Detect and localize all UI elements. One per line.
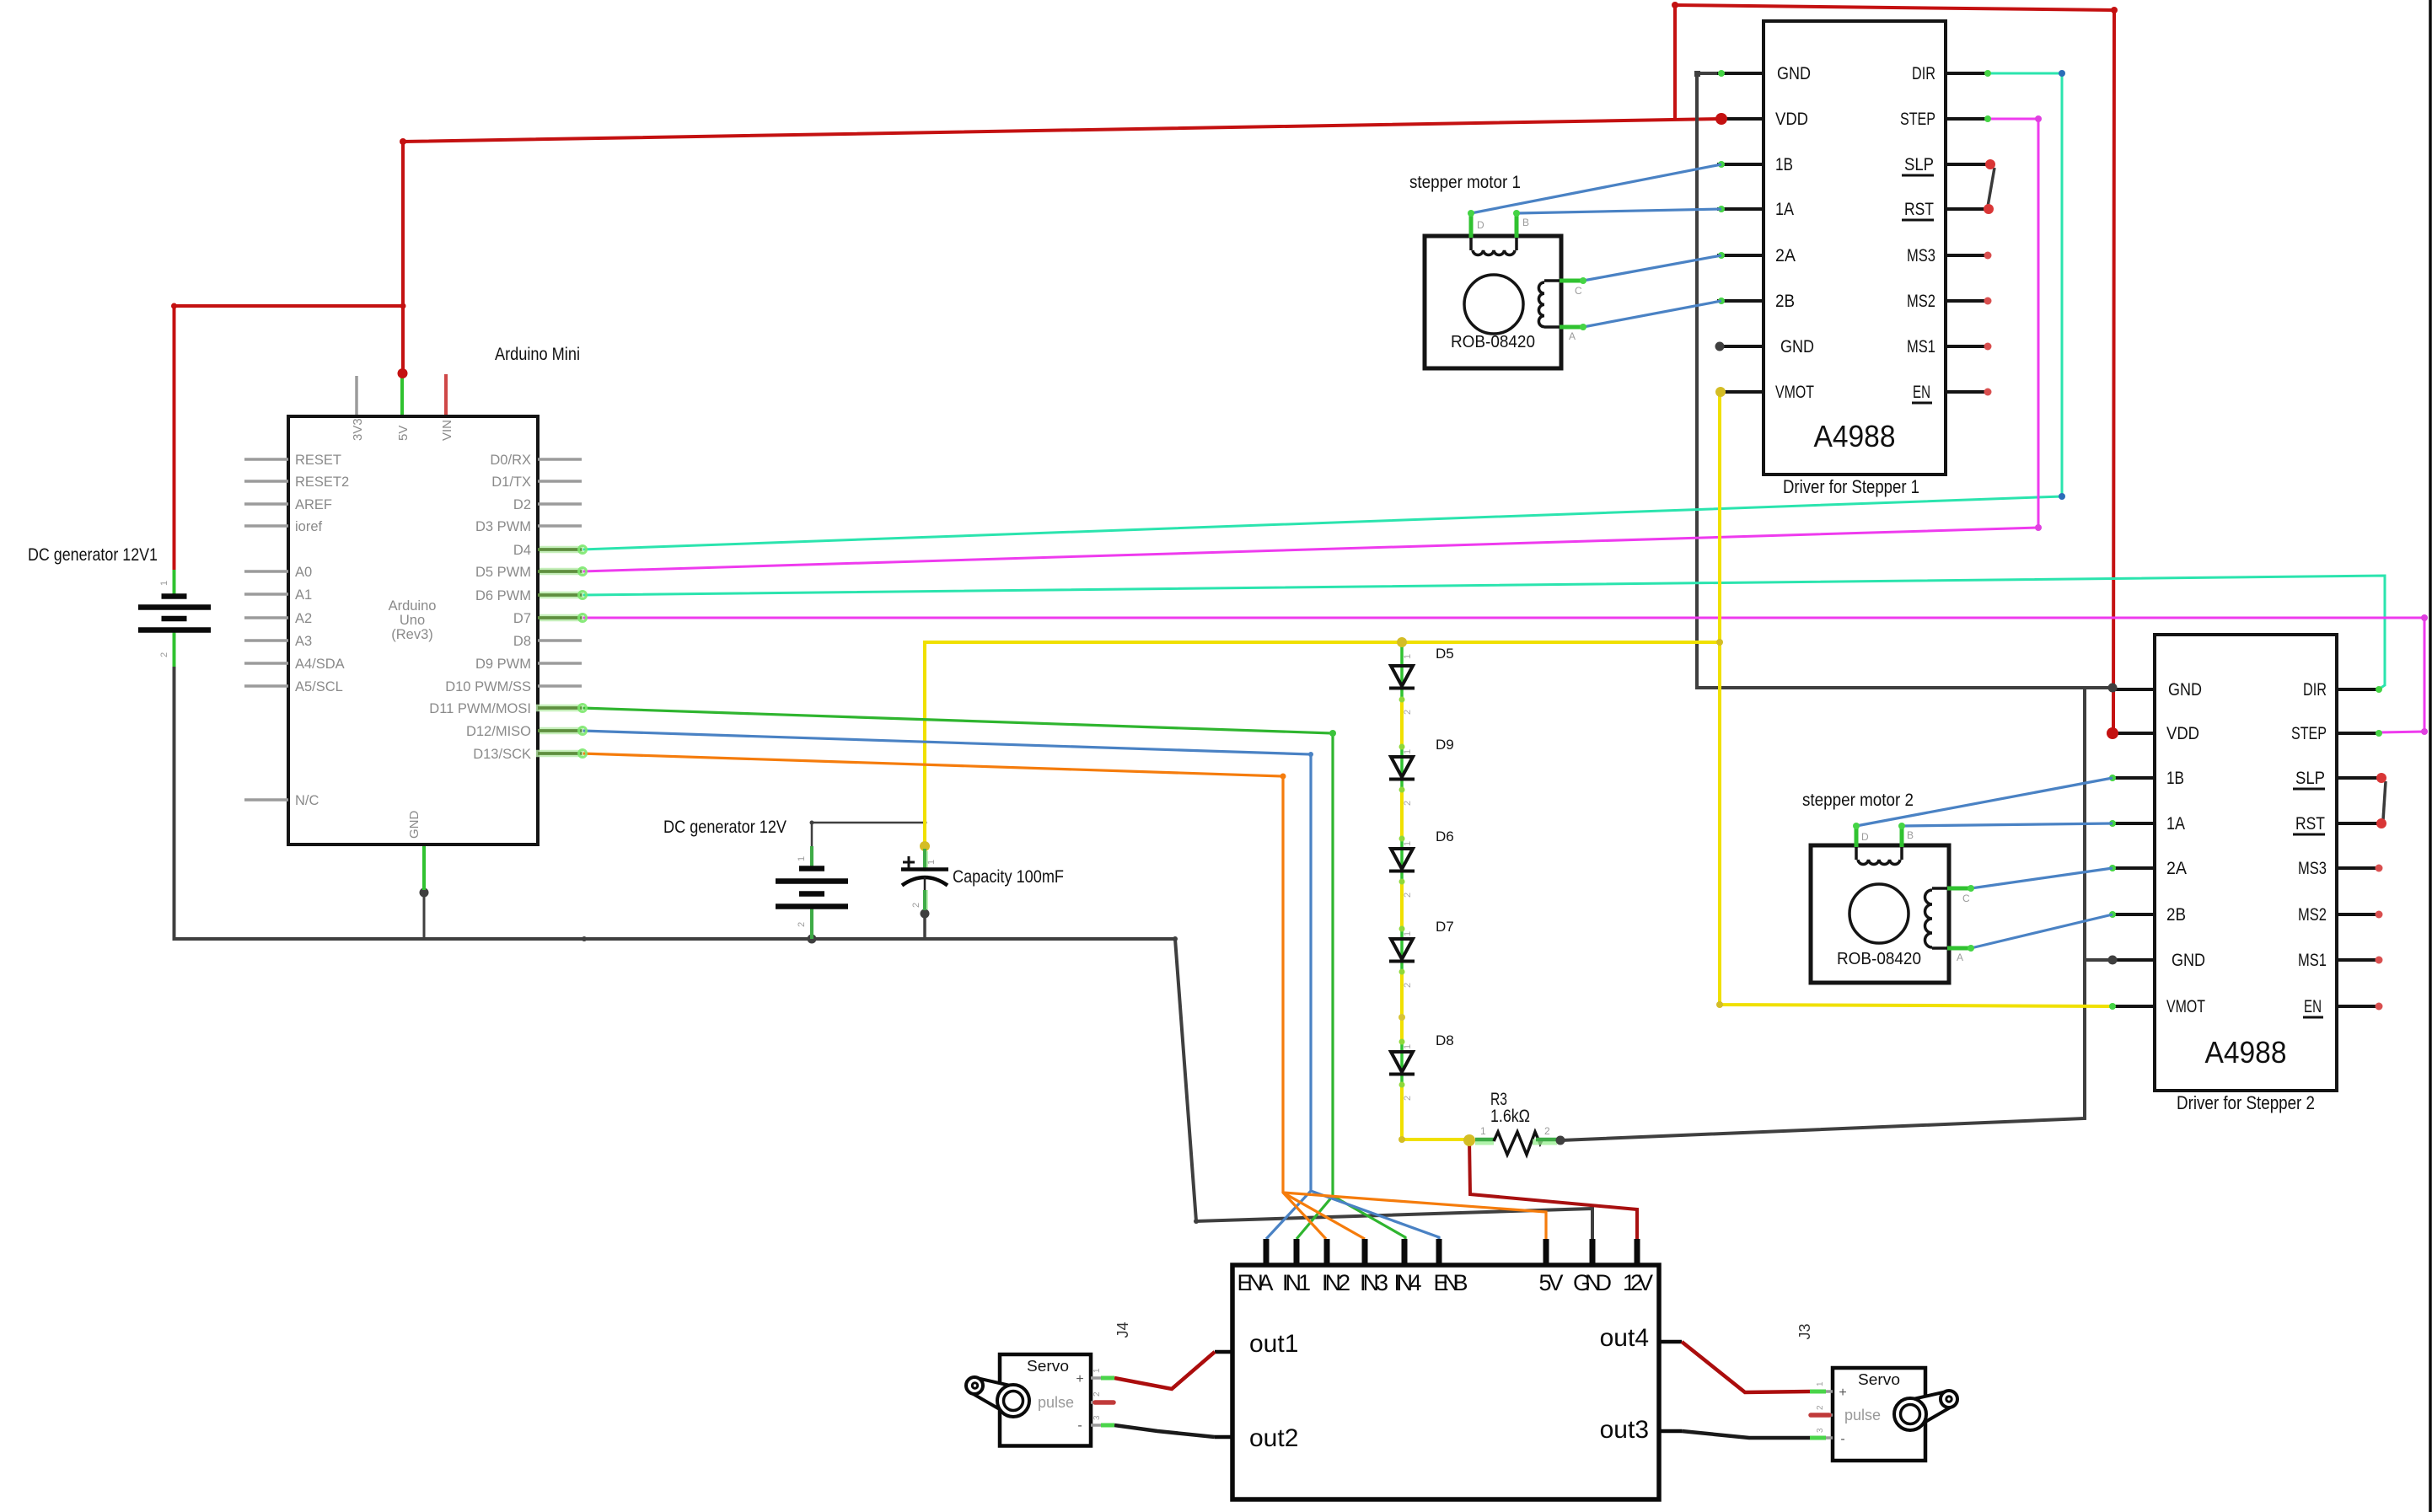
wire red out4 to servo J3 plus xyxy=(1682,1342,1810,1392)
svg-text:+: + xyxy=(1839,1386,1846,1400)
node 5V red junction dot xyxy=(398,368,408,378)
svg-text:A1: A1 xyxy=(295,587,312,603)
svg-text:D8: D8 xyxy=(1436,1032,1454,1048)
svg-text:out3: out3 xyxy=(1600,1416,1649,1444)
pin leads driver1 xyxy=(1717,73,1988,392)
node bus junction dots xyxy=(582,936,587,941)
svg-text:GND: GND xyxy=(1573,1270,1612,1295)
svg-text:DIR: DIR xyxy=(2303,680,2327,700)
svg-text:A: A xyxy=(1569,330,1576,342)
svg-text:D6 PWM: D6 PWM xyxy=(475,588,531,603)
diode D8 xyxy=(1389,1052,1415,1075)
motor driver board body xyxy=(1232,1265,1659,1499)
svg-text:VMOT: VMOT xyxy=(1775,383,1814,402)
svg-text:STEP: STEP xyxy=(1900,110,1935,129)
svg-text:A: A xyxy=(1957,952,1963,963)
svg-text:3: 3 xyxy=(1093,1415,1102,1420)
diode D7 xyxy=(1389,939,1415,962)
wire blue motor1 D to 1B xyxy=(1471,164,1721,213)
svg-text:Arduino: Arduino xyxy=(389,598,437,614)
svg-text:D13/SCK: D13/SCK xyxy=(473,747,531,762)
capacitor center stub xyxy=(924,877,926,892)
svg-text:Driver for Stepper 2: Driver for Stepper 2 xyxy=(2177,1092,2315,1113)
svg-text:1: 1 xyxy=(1816,1381,1825,1386)
motor M2 body xyxy=(1811,845,1949,983)
wire orange D13 to IN2, IN3 and 5V xyxy=(582,753,1546,1239)
svg-text:Driver for Stepper 1: Driver for Stepper 1 xyxy=(1783,476,1919,497)
svg-text:SLP: SLP xyxy=(1904,155,1934,174)
svg-text:A0: A0 xyxy=(295,565,312,580)
svg-text:GND: GND xyxy=(1777,64,1811,83)
wire pulse stub J3 xyxy=(1811,1413,1829,1418)
op-amp U3 A4988 driver 2 body xyxy=(2155,635,2337,1091)
wire battery2 pin1 lead green xyxy=(810,846,813,868)
svg-text:2A: 2A xyxy=(1775,246,1796,265)
wire red junction to 5V dot vertical xyxy=(403,119,1721,374)
RST underline d2 xyxy=(2293,834,2325,836)
svg-text:out2: out2 xyxy=(1249,1424,1298,1452)
svg-text:3V3: 3V3 xyxy=(351,418,365,441)
svg-text:Uno: Uno xyxy=(400,613,425,628)
svg-text:GND: GND xyxy=(407,811,421,839)
svg-text:ROB-08420: ROB-08420 xyxy=(1451,333,1535,351)
svg-text:1B: 1B xyxy=(1775,155,1793,174)
pin leads right green (connected, glow) xyxy=(536,550,583,753)
pin numbers diodes xyxy=(1403,654,1413,1101)
node yellow dot at yellow corner bottom xyxy=(1716,1001,1723,1008)
svg-text:2: 2 xyxy=(1403,893,1413,898)
wire cap plus lead green xyxy=(925,851,927,871)
wire grey driver2 vertical down to R3 xyxy=(1561,688,2085,1140)
svg-text:D9: D9 xyxy=(1436,737,1454,753)
pin labels left xyxy=(295,453,349,808)
wire motor1 lead B green xyxy=(1515,213,1519,238)
svg-text:-: - xyxy=(1840,1432,1844,1446)
svg-text:D3 PWM: D3 PWM xyxy=(475,519,531,534)
svg-text:out1: out1 xyxy=(1249,1330,1298,1358)
svg-text:RST: RST xyxy=(2295,814,2325,834)
svg-text:RESET: RESET xyxy=(295,453,341,468)
svg-text:+: + xyxy=(1076,1372,1083,1386)
motor2 right coil xyxy=(1925,888,1948,948)
svg-text:A4988: A4988 xyxy=(1814,419,1896,453)
node R3 yellow junction dot xyxy=(1463,1134,1475,1146)
svg-text:stepper motor 1: stepper motor 1 xyxy=(1409,173,1521,192)
svg-text:D12/MISO: D12/MISO xyxy=(466,724,531,739)
wire blue motor2 A to 2B xyxy=(1971,914,2113,948)
svg-text:MS3: MS3 xyxy=(1907,246,1935,265)
wire blue motor2 B to 1A xyxy=(1902,823,2113,826)
node red bend dots xyxy=(171,303,177,309)
svg-text:D0/RX: D0/RX xyxy=(490,453,531,468)
svg-text:ROB-08420: ROB-08420 xyxy=(1837,950,1921,968)
svg-text:D1/TX: D1/TX xyxy=(491,475,531,490)
wire blue motor1 C to 2A xyxy=(1583,255,1721,281)
wire yellow VMOT1 down to driver2 VMOT xyxy=(1720,392,2113,1006)
svg-text:2: 2 xyxy=(1093,1391,1102,1397)
pin leads left (unconnected grey) xyxy=(244,459,288,800)
node MS3 MS2 MS1 EN red marks d2 xyxy=(2376,865,2383,1011)
svg-text:1A: 1A xyxy=(1775,200,1794,219)
capacitor C1 top plate xyxy=(901,867,948,871)
svg-text:VIN: VIN xyxy=(440,420,454,441)
svg-text:Servo: Servo xyxy=(1858,1371,1900,1388)
svg-text:D10 PWM/SS: D10 PWM/SS xyxy=(445,679,531,694)
svg-text:MS2: MS2 xyxy=(2298,905,2327,925)
wire yellow D8 bottom to R3 node xyxy=(1402,1138,1469,1141)
motor1 rotor circle xyxy=(1464,275,1523,334)
wire blue motor1 B to 1A xyxy=(1517,209,1721,213)
svg-text:2B: 2B xyxy=(2166,905,2186,925)
wire pulse stub J4 xyxy=(1095,1400,1114,1405)
svg-text:A5/SCL: A5/SCL xyxy=(295,679,343,694)
pin labels right xyxy=(429,453,531,762)
wire cap minus lead green xyxy=(926,890,928,909)
wire red battery1 to junction xyxy=(174,5,2115,733)
node RST red dot xyxy=(1984,204,1994,214)
pin labels top row xyxy=(1237,1270,1654,1295)
svg-text:2: 2 xyxy=(1403,983,1413,988)
pin green highlights J4 xyxy=(1101,1376,1114,1381)
svg-text:SLP: SLP xyxy=(2295,769,2325,788)
SLP underline xyxy=(1902,174,1934,177)
node yellow junction dot top of chain xyxy=(1397,637,1407,647)
svg-text:1.6kΩ: 1.6kΩ xyxy=(1490,1107,1530,1126)
wire red R3 node down to 12V pin xyxy=(1469,1139,1637,1239)
svg-text:D: D xyxy=(1477,219,1484,231)
svg-text:D6: D6 xyxy=(1436,828,1454,844)
node DIR STEP green dots xyxy=(1984,70,1991,77)
servo J4 body xyxy=(1000,1354,1091,1446)
wire motor2 lead C green xyxy=(1947,887,1971,891)
motor M1 body xyxy=(1425,236,1561,368)
svg-text:ENA: ENA xyxy=(1237,1270,1274,1295)
capacitor plus sign xyxy=(903,856,915,868)
pin leads right grey (unconnected) xyxy=(538,459,582,686)
RST underline xyxy=(1902,219,1934,222)
svg-text:D2: D2 xyxy=(513,497,531,512)
svg-text:1A: 1A xyxy=(2166,814,2185,834)
wire magenta D5 to driver1 STEP xyxy=(582,119,2424,732)
node VDD2 red junction dot xyxy=(2107,727,2118,739)
motor2 top coil xyxy=(1856,847,1902,865)
pin green highlights J3 xyxy=(1810,1390,1826,1394)
svg-text:IN3: IN3 xyxy=(1360,1270,1388,1295)
svg-text:DIR: DIR xyxy=(1912,64,1935,83)
svg-text:out4: out4 xyxy=(1600,1324,1649,1352)
wire grey arduino GND stub to bus xyxy=(423,893,426,939)
svg-text:1: 1 xyxy=(797,856,807,861)
node GND1 green dot xyxy=(1718,70,1725,77)
wire grey capacitor minus stub to bus xyxy=(923,914,926,939)
wire grey battery2 plus link to yellow node xyxy=(812,823,925,847)
svg-text:J4: J4 xyxy=(1114,1322,1131,1338)
svg-text:2: 2 xyxy=(1403,801,1413,806)
wire grey driver2 GND2 stub xyxy=(2085,958,2113,962)
node motor2 pin dots xyxy=(1853,823,1974,952)
svg-text:STEP: STEP xyxy=(2291,724,2327,743)
EN underline d2 xyxy=(2303,1016,2323,1019)
svg-text:1: 1 xyxy=(1480,1125,1486,1137)
wire GND bottom lead green xyxy=(422,844,426,890)
node SLP red dot xyxy=(1985,159,1995,169)
wire black servo J4 minus to out2 xyxy=(1114,1425,1215,1437)
svg-text:B: B xyxy=(1907,829,1914,841)
servo J4 horn xyxy=(966,1377,1029,1417)
frame right edge bar xyxy=(2429,0,2432,1512)
node yellow-green chain dots xyxy=(1399,697,1405,1088)
battery BT1 plates xyxy=(138,597,211,630)
svg-text:IN2: IN2 xyxy=(1322,1270,1350,1295)
node motor1 pin dots xyxy=(1468,210,1586,330)
svg-text:DC generator 12V: DC generator 12V xyxy=(663,818,787,837)
wire motor1 lead D green xyxy=(1469,213,1474,238)
svg-text:Servo: Servo xyxy=(1027,1358,1069,1375)
wire yellow segments between diodes xyxy=(1400,700,1404,1139)
svg-text:1: 1 xyxy=(1403,749,1413,754)
svg-text:C: C xyxy=(1962,893,1970,904)
wire yellow capacitor up to D5 junction and to VMOT1 column xyxy=(925,392,2113,1139)
svg-text:A3: A3 xyxy=(295,634,312,649)
wire cyan D4 to driver1 DIR xyxy=(582,73,2385,689)
svg-text:IN4: IN4 xyxy=(1394,1270,1422,1295)
svg-text:2B: 2B xyxy=(1775,292,1795,311)
wire cyan D6 to driver2 DIR xyxy=(582,576,2385,689)
svg-text:2A: 2A xyxy=(2166,859,2187,878)
pin leads J4 xyxy=(1091,1378,1107,1425)
svg-text:D7: D7 xyxy=(513,611,531,626)
wire motor2 lead D green xyxy=(1855,826,1859,847)
node VMOT1 yellow dot xyxy=(1715,387,1726,397)
motor1 top coil xyxy=(1471,238,1517,255)
node VDD1 red junction dot xyxy=(1715,113,1727,125)
svg-text:GND: GND xyxy=(1780,337,1814,357)
wire VIN top lead red stub xyxy=(444,374,448,416)
svg-text:pulse: pulse xyxy=(1038,1394,1074,1411)
wire diode chain green backbone xyxy=(1400,642,1404,1139)
motor2 rotor circle xyxy=(1850,884,1909,943)
wire blue motor1 A to 2B xyxy=(1583,301,1721,327)
svg-text:D7: D7 xyxy=(1436,919,1454,935)
svg-text:Arduino Mini: Arduino Mini xyxy=(495,345,580,364)
svg-text:B: B xyxy=(1522,217,1529,228)
svg-text:pulse: pulse xyxy=(1844,1407,1881,1424)
svg-text:J3: J3 xyxy=(1796,1323,1813,1339)
svg-text:ioref: ioref xyxy=(295,519,323,534)
servo J3 body xyxy=(1833,1368,1925,1461)
svg-text:1: 1 xyxy=(159,581,169,586)
svg-text:-: - xyxy=(1077,1418,1082,1433)
wire 5V top lead green xyxy=(400,374,404,416)
pin stubs top xyxy=(1266,1239,1637,1265)
svg-text:D5 PWM: D5 PWM xyxy=(475,565,531,580)
motor1 right coil xyxy=(1538,281,1560,327)
svg-text:2: 2 xyxy=(1403,1096,1413,1101)
node 1B 1A 2A 2B VMOT green dots d2 xyxy=(2109,775,2116,1010)
pin labels driver2 left xyxy=(2166,680,2205,1016)
svg-text:2: 2 xyxy=(797,922,807,927)
svg-text:GND: GND xyxy=(2168,680,2202,700)
wire battery1 pin2 lead green xyxy=(173,630,176,667)
wire red out1 to servo J4 plus xyxy=(1114,1352,1215,1389)
svg-text:1: 1 xyxy=(1403,841,1413,846)
wire grey battery1 minus down and ground bus xyxy=(174,73,2113,1239)
wire black out3 to servo J3 minus xyxy=(1682,1431,1810,1438)
pin lead out4 xyxy=(1659,1340,1682,1344)
svg-text:Capacity 100mF: Capacity 100mF xyxy=(953,867,1064,887)
wire SLP-RST jumper d2 xyxy=(2383,781,2386,820)
pin lead out1 xyxy=(1215,1350,1232,1354)
svg-text:DC generator 12V1: DC generator 12V1 xyxy=(28,545,158,565)
wire blue D12 to ENA and ENB xyxy=(582,731,1439,1239)
svg-text:D11 PWM/MOSI: D11 PWM/MOSI xyxy=(429,701,531,716)
node yellow dot at VMOT1 column crossing xyxy=(1716,639,1723,646)
op-amp U2 A4988 driver 1 body xyxy=(1764,21,1946,475)
svg-text:1: 1 xyxy=(926,860,937,865)
svg-text:12V: 12V xyxy=(1623,1270,1653,1295)
svg-text:RESET2: RESET2 xyxy=(295,475,349,490)
pin lead out3 xyxy=(1659,1429,1682,1434)
svg-text:1: 1 xyxy=(1403,931,1413,936)
node DIR STEP green dots d2 xyxy=(2376,686,2382,693)
pin labels driver2 right xyxy=(2291,680,2327,1016)
pin labels driver1 left xyxy=(1775,64,1814,402)
wire R3 lead1 green xyxy=(1475,1139,1494,1145)
node SLP red dot d2 xyxy=(2376,773,2386,783)
svg-text:C: C xyxy=(1575,285,1582,297)
svg-text:N/C: N/C xyxy=(295,793,319,808)
svg-text:2: 2 xyxy=(1403,710,1413,715)
svg-text:1: 1 xyxy=(1403,654,1413,659)
svg-text:MS3: MS3 xyxy=(2298,859,2327,878)
node MS3 MS2 MS1 EN red marks xyxy=(1984,252,1992,396)
svg-text:1: 1 xyxy=(1093,1368,1102,1373)
battery BT2 plates xyxy=(776,869,848,907)
svg-text:AREF: AREF xyxy=(295,497,332,512)
wire battery1 pin1 lead green xyxy=(173,570,176,596)
node GND2 dark dot xyxy=(1715,342,1725,351)
wire green D11 to IN1 and IN4 xyxy=(582,708,1405,1239)
svg-text:MS2: MS2 xyxy=(1907,292,1935,311)
servo J3 horn xyxy=(1894,1391,1957,1430)
svg-text:EN: EN xyxy=(1913,383,1930,402)
svg-text:1: 1 xyxy=(1403,1044,1413,1049)
EN underline xyxy=(1912,402,1932,405)
SLP underline d2 xyxy=(2293,788,2325,791)
svg-text:stepper motor 2: stepper motor 2 xyxy=(1802,791,1914,810)
svg-text:2: 2 xyxy=(159,652,169,657)
svg-text:MS1: MS1 xyxy=(1907,337,1935,357)
svg-text:1B: 1B xyxy=(2166,769,2184,788)
svg-text:3: 3 xyxy=(1816,1428,1825,1433)
node R3 pin2 dark dot xyxy=(1556,1136,1565,1145)
capacitor C1 curved plate xyxy=(902,877,948,886)
wire battery2 pin2 lead green xyxy=(810,907,813,939)
svg-text:RST: RST xyxy=(1904,200,1934,219)
wire R3 lead2 green xyxy=(1533,1139,1557,1145)
svg-text:5V: 5V xyxy=(396,426,411,441)
svg-text:(Rev3): (Rev3) xyxy=(391,627,433,642)
wire red top frame to driver2 VDD xyxy=(1675,5,2114,733)
svg-text:ENB: ENB xyxy=(1434,1270,1468,1295)
svg-text:D5: D5 xyxy=(1436,646,1454,662)
svg-text:VDD: VDD xyxy=(1775,110,1808,129)
svg-text:D: D xyxy=(1861,831,1869,843)
svg-text:A2: A2 xyxy=(295,611,312,626)
svg-text:VMOT: VMOT xyxy=(2166,997,2205,1016)
resistor R3 zigzag xyxy=(1494,1132,1542,1155)
wire blue motor2 C to 2A xyxy=(1971,868,2113,888)
op-amp U1 arduino body xyxy=(288,416,538,844)
wire motor2 lead A green xyxy=(1947,946,1971,951)
svg-text:IN1: IN1 xyxy=(1282,1270,1311,1295)
wire SLP-RST jumper xyxy=(1988,168,1994,206)
wire magenta D7 to driver2 STEP xyxy=(582,618,2424,732)
svg-text:EN: EN xyxy=(2304,997,2322,1016)
diode D9 xyxy=(1389,757,1415,780)
diode D6 xyxy=(1389,849,1415,871)
svg-text:D8: D8 xyxy=(513,634,531,649)
diode D5 xyxy=(1389,666,1415,689)
svg-text:A4988: A4988 xyxy=(2205,1035,2287,1070)
wire blue motor2 D to 1B xyxy=(1856,778,2113,826)
node 1B 1A 2A 2B green dots xyxy=(1718,161,1725,304)
wire motor2 lead B green xyxy=(1900,826,1904,847)
node yellow dot at cap plus xyxy=(920,841,930,851)
node yellow small dot chain bottom corner xyxy=(1399,1136,1405,1143)
pin leads J3 xyxy=(1810,1391,1833,1438)
svg-text:2: 2 xyxy=(1816,1405,1825,1410)
wire 3V3 top lead (n/c) xyxy=(355,376,358,416)
node RST red dot d2 xyxy=(2376,818,2386,828)
wire grey driver1 GND vertical to driver2 GND xyxy=(1697,73,2113,688)
svg-text:D9 PWM: D9 PWM xyxy=(475,657,531,672)
svg-text:MS1: MS1 xyxy=(2298,951,2327,970)
wire motor1 lead A green xyxy=(1560,325,1583,330)
svg-text:A4/SDA: A4/SDA xyxy=(295,657,345,672)
svg-text:5V: 5V xyxy=(1539,1270,1564,1295)
svg-text:VDD: VDD xyxy=(2166,724,2199,743)
pin lead out2 xyxy=(1215,1435,1232,1440)
node driver2 GND1 junction dark dot xyxy=(2108,684,2118,693)
node driver2 GND2 dark dot xyxy=(2108,956,2118,965)
pin labels driver1 right xyxy=(1900,64,1935,402)
wire motor1 lead C green xyxy=(1560,279,1583,283)
svg-text:D4: D4 xyxy=(513,543,531,558)
svg-text:2: 2 xyxy=(911,903,921,908)
svg-text:2: 2 xyxy=(1544,1125,1550,1137)
node green pin dots xyxy=(579,546,587,758)
svg-text:GND: GND xyxy=(2172,951,2205,970)
pin leads driver2 xyxy=(2113,689,2379,1006)
